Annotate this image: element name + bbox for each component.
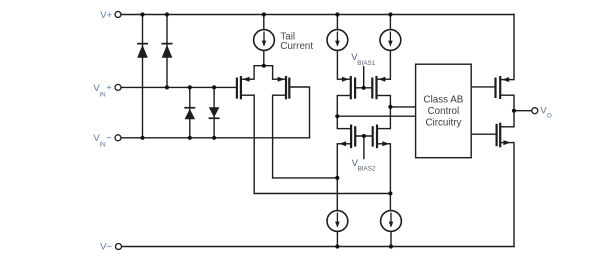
svg-text:+: + (106, 82, 112, 93)
wire tail split bar (254, 65, 273, 67)
transistor Q7 output PMOS (496, 76, 515, 99)
label VBIAS2 (352, 158, 376, 173)
junction dot VIN- / D4 (212, 136, 216, 140)
terminal VIN- (115, 135, 121, 141)
wire V+ rail drop to output PMOS source (513, 15, 515, 80)
wire Q1 drain down (253, 95, 255, 193)
diode D2 (162, 43, 173, 58)
svg-text:V+: V+ (100, 10, 112, 21)
wire left source drop (253, 66, 255, 80)
junction dot V+ / I3 (388, 12, 392, 16)
wire current source I2 top lead (336, 15, 338, 30)
junction dot right sink tap (388, 191, 392, 195)
wire Class AB box to output PMOS gate (471, 86, 495, 88)
junction dot VIN- / D1 (140, 136, 144, 140)
junction dot node B (388, 105, 392, 109)
wire VIN- rail (122, 137, 310, 139)
junction dot BIAS1 gates (362, 86, 366, 90)
wire current sink I4 bottom lead (336, 231, 338, 246)
junction dot V- / I5 (389, 244, 393, 248)
svg-text:Control: Control (428, 106, 460, 117)
wire output node to VO terminal (514, 110, 532, 112)
label VIN- (93, 133, 112, 149)
wire diode column D2 (V+ to VIN+) (166, 15, 168, 88)
junction dot VIN+ / D3 (188, 85, 192, 89)
diode D3 (184, 107, 195, 119)
wire diode column D4 (VIN+ to VIN-) (213, 87, 215, 137)
wire current source I3 top lead (389, 15, 391, 30)
wire VIN+ rail to diff pair left gate (121, 86, 237, 88)
wire Q1 drain cross line to right current sink (254, 193, 390, 195)
junction dot V+ / D1 (140, 12, 144, 16)
svg-text:IN: IN (99, 91, 106, 98)
junction dot left sink tap (335, 176, 339, 180)
wire current source I3 bottom lead (389, 50, 391, 79)
wire diode column D1 (V+ to VIN-) (142, 15, 144, 138)
wire node B to Class AB box (390, 106, 415, 108)
current sink I4 (327, 211, 348, 232)
wire VBIAS1 lead (363, 67, 365, 88)
wire node A to Class AB box (337, 115, 415, 117)
wire VBIAS2 lead (363, 136, 365, 159)
svg-text:−: − (106, 133, 112, 144)
current source I2 (327, 30, 348, 51)
wire V+ rail (121, 14, 514, 16)
transistor Q4 cascode BIAS1 right PMOS (372, 76, 390, 99)
wire output NMOS drain to output node (513, 111, 515, 127)
junction dot BIAS2 gates (362, 134, 366, 138)
junction dot output node (512, 109, 516, 113)
Class AB control circuitry box U1 (416, 64, 472, 158)
wire diode column D3 (VIN+ to VIN-) (189, 87, 191, 137)
transistor Q8 output NMOS (497, 123, 514, 148)
svg-text:Class AB: Class AB (424, 94, 464, 105)
wire current sink I5 bottom lead (390, 231, 392, 246)
junction dot V- / I4 (335, 244, 339, 248)
wire BIAS2 pair gate bridge (355, 135, 373, 137)
wire BIAS1 pair gate bridge (355, 87, 372, 89)
transistor Q5 mirror BIAS2 left NMOS (337, 125, 355, 149)
svg-text:V−: V− (100, 242, 112, 253)
svg-text:BIAS1: BIAS1 (357, 60, 375, 67)
label VBIAS1 (351, 52, 375, 67)
junction dot node A (335, 114, 339, 118)
terminal V- (116, 244, 122, 250)
junction dot V+ / I2 (335, 12, 339, 16)
transistor Q1 diff pair left PMOS (237, 76, 254, 99)
svg-text:O: O (547, 112, 552, 119)
current source I3 (380, 30, 401, 51)
wire left cascode vertical (336, 96, 338, 129)
wire current source I2 bottom lead (336, 50, 338, 79)
terminal VIN+ (115, 84, 121, 90)
svg-text:Circuitry: Circuitry (425, 117, 461, 128)
wire VIN- riser to diff pair right gate (289, 87, 309, 138)
svg-text:BIAS2: BIAS2 (358, 166, 376, 173)
junction dot tail split (262, 64, 266, 68)
wire output PMOS drain to output node (513, 95, 515, 111)
wire Class AB box to output NMOS gate (471, 133, 496, 135)
current sink I5 (381, 211, 402, 232)
wire left lower vertical to current sink I4 (336, 144, 338, 211)
wire V- rail riser to output NMOS source (513, 143, 515, 247)
wire right lower vertical to current sink I5 (389, 144, 391, 211)
junction dot VIN- / D3 (188, 136, 192, 140)
current source tail (254, 30, 275, 51)
label tail current (280, 32, 313, 53)
terminal V+ (115, 12, 121, 18)
terminal VO (532, 108, 538, 114)
junction dot V+ / tail (262, 12, 266, 16)
junction dot V+ / D2 (165, 12, 169, 16)
svg-text:Current: Current (280, 41, 313, 52)
wire tail current bottom lead (263, 50, 265, 65)
diode D4 (209, 107, 220, 119)
junction dot VIN+ / D2 (165, 85, 169, 89)
junction dot VIN+ / D4 (212, 85, 216, 89)
wire Q2 drain cross line to left current sink (273, 177, 338, 179)
diode D1 (137, 43, 148, 58)
svg-text:IN: IN (99, 141, 106, 148)
label VO (540, 105, 552, 119)
wire right cascode vertical (389, 96, 391, 129)
label VIN+ (93, 82, 112, 98)
wire tail current top lead (263, 15, 265, 30)
wire V- rail (122, 246, 515, 248)
wire right source drop (272, 66, 274, 80)
transistor Q6 mirror BIAS2 right NMOS (373, 125, 391, 149)
transistor Q2 diff pair right PMOS (273, 76, 290, 99)
wire Q2 drain down (272, 95, 274, 178)
transistor Q3 cascode BIAS1 left PMOS (337, 76, 355, 99)
